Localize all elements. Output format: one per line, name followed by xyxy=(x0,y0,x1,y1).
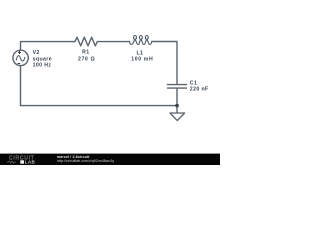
ground symbol triangle xyxy=(170,113,185,121)
svg-text:100 Hz: 100 Hz xyxy=(33,63,52,69)
svg-text:100 mH: 100 mH xyxy=(131,57,153,63)
svg-text:V2: V2 xyxy=(33,50,40,56)
capacitor C1 bottom plate xyxy=(168,87,187,89)
CircuitLab logo xyxy=(0,153,56,165)
wire: resistor to inductor xyxy=(97,41,129,43)
svg-text:L1: L1 xyxy=(136,50,143,56)
watermark credit text xyxy=(57,155,114,163)
wire: source bottom down the left side xyxy=(20,66,22,106)
wire: capacitor to bottom junction xyxy=(176,88,178,105)
resistor R1 zigzag xyxy=(75,37,97,46)
svg-text:270 Ω: 270 Ω xyxy=(78,57,95,63)
svg-text:square: square xyxy=(33,56,52,62)
voltage source V2 sine glyph xyxy=(16,56,25,61)
capacitor C1 top plate xyxy=(168,84,187,86)
svg-text:R1: R1 xyxy=(82,50,89,56)
wire: inductor to top-right corner and down to capacitor xyxy=(152,42,177,85)
wire: source top to resistor (top-left corner) xyxy=(21,42,76,51)
voltage source plus sign xyxy=(18,51,21,54)
ground stub wire xyxy=(176,106,178,113)
CircuitLab watermark bar xyxy=(0,153,220,166)
inductor L1 coil xyxy=(129,35,151,44)
voltage source minus sign xyxy=(18,63,21,65)
voltage source V2 circle xyxy=(13,50,28,65)
node: junction dot at C1/ground xyxy=(175,104,179,108)
wire: bottom rail xyxy=(21,105,178,107)
svg-text:220 nF: 220 nF xyxy=(190,87,209,93)
svg-text:LAB: LAB xyxy=(25,159,36,164)
